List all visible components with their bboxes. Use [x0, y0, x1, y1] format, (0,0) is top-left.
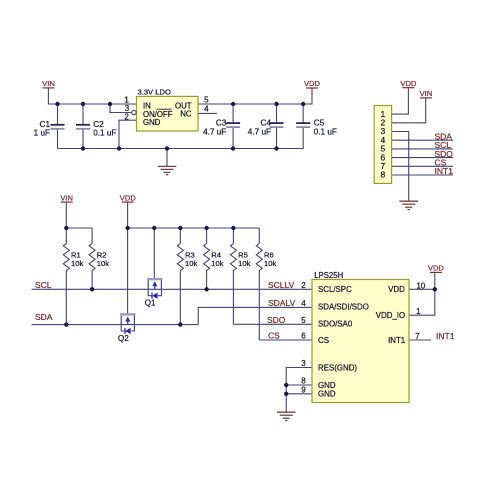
svg-text:1 uF: 1 uF — [34, 128, 50, 137]
svg-text:8: 8 — [301, 377, 306, 386]
svg-text:VDD: VDD — [400, 79, 417, 88]
junction IC pin9 GND — [284, 392, 288, 396]
capacitor C3 label — [203, 118, 227, 136]
svg-text:SCLLV: SCLLV — [268, 280, 295, 290]
junction IC pin8 GND — [284, 383, 288, 387]
svg-text:GND: GND — [318, 381, 336, 390]
ground stem G3 — [285, 394, 287, 412]
svg-text:VDD: VDD — [304, 79, 321, 88]
resistor R3 label — [185, 251, 197, 269]
svg-text:NC: NC — [180, 110, 192, 119]
transistor Q1 — [145, 279, 163, 307]
svg-text:3.3V LDO: 3.3V LDO — [138, 88, 171, 97]
wire VDD rail mid — [128, 227, 260, 229]
svg-text:INT1: INT1 — [436, 331, 455, 341]
resistor R5 label — [238, 251, 250, 269]
capacitor C4 label — [248, 118, 272, 136]
svg-text:5: 5 — [204, 96, 209, 105]
svg-text:1: 1 — [416, 307, 421, 316]
ground stem G1 — [166, 149, 168, 167]
junction LDO GND on GND rail — [117, 146, 121, 150]
supply VDD above connector — [400, 79, 417, 88]
svg-text:8: 8 — [381, 170, 386, 180]
svg-text:INT1: INT1 — [435, 166, 454, 176]
svg-text:CS: CS — [268, 331, 280, 341]
supply VIN above connector — [420, 89, 433, 98]
junction C4 top on VDD rail — [274, 102, 278, 106]
junction IC pin10 VDD — [433, 287, 437, 291]
ground G2 — [399, 201, 418, 209]
svg-text:0.1 uF: 0.1 uF — [314, 127, 337, 136]
wire Q1 gate — [153, 228, 155, 279]
junction R3 bottom on SDA — [178, 322, 182, 326]
wire IC pin7 INT1 — [409, 339, 431, 341]
resistor R4 — [204, 228, 210, 289]
junction R4 bottom on SCL — [204, 287, 208, 291]
junction C4 bottom on GND rail — [274, 146, 278, 150]
svg-text:VIN: VIN — [420, 89, 433, 98]
svg-text:LPS25H: LPS25H — [314, 271, 343, 280]
capacitor C3 leads — [232, 104, 234, 149]
svg-text:4: 4 — [204, 105, 209, 114]
wire IC pin8 GND — [286, 384, 312, 386]
capacitor C3 plates — [226, 123, 240, 127]
svg-text:VDD: VDD — [120, 193, 137, 202]
wire CS line — [259, 339, 312, 341]
svg-text:5: 5 — [301, 316, 306, 325]
capacitor C5 label — [314, 118, 337, 136]
svg-text:10k: 10k — [264, 259, 276, 268]
junction ground stem on GND rail — [165, 146, 169, 150]
junction R2 bottom on SCL — [90, 287, 94, 291]
svg-text:6: 6 — [301, 332, 306, 341]
resistor R5 — [230, 228, 236, 324]
svg-text:Q2: Q2 — [118, 334, 129, 343]
svg-text:SDA: SDA — [35, 312, 53, 322]
wire VDD stem mid + Q2 gate — [127, 202, 129, 314]
svg-text:4: 4 — [301, 299, 306, 308]
wire SDO line — [233, 323, 312, 325]
wire IC pin10 VDD — [409, 272, 435, 289]
svg-text:9: 9 — [301, 385, 306, 394]
svg-text:CS: CS — [318, 336, 329, 345]
capacitor C2 leads — [82, 104, 84, 125]
wire IC pin9 GND — [286, 393, 312, 395]
svg-text:C4: C4 — [261, 118, 272, 127]
junction VIN stem / R1 top — [64, 226, 68, 230]
pin 3 bubble — [132, 110, 136, 114]
junction R4 top on VDD rail — [204, 226, 208, 230]
wire connector pin3 to ground — [392, 132, 409, 201]
svg-text:C3: C3 — [216, 118, 227, 127]
transistor Q2 — [118, 314, 136, 342]
svg-text:GND: GND — [143, 118, 161, 127]
svg-text:INT1: INT1 — [388, 336, 405, 345]
junction C3 top on VDD rail — [231, 102, 235, 106]
svg-text:10k: 10k — [185, 259, 197, 268]
svg-text:10k: 10k — [71, 259, 83, 268]
svg-text:VIN: VIN — [60, 193, 73, 202]
wire LDO GND pin2 — [119, 120, 137, 148]
wire connector pin1 to VDD — [392, 88, 409, 114]
wire SDALV jog — [198, 307, 312, 324]
svg-text:GND: GND — [318, 390, 336, 399]
wire SDA line — [32, 324, 199, 326]
wire IC pin3 RES(GND) — [286, 368, 312, 395]
wire ground rail bottom — [58, 148, 304, 150]
svg-text:7: 7 — [415, 332, 420, 341]
svg-text:0.1 uF: 0.1 uF — [93, 128, 116, 137]
supply VDD above C5 — [304, 79, 321, 88]
svg-text:4.7 uF: 4.7 uF — [248, 127, 271, 136]
capacitor C2 plates — [76, 125, 90, 129]
svg-text:SCL/SPC: SCL/SPC — [318, 285, 352, 294]
junction C2 bottom on GND rail — [81, 146, 85, 150]
wire SCL line — [32, 288, 312, 290]
junction C3 bottom on GND rail — [231, 146, 235, 150]
connector J1 box — [374, 106, 391, 184]
svg-text:VDD: VDD — [428, 264, 445, 273]
svg-text:10: 10 — [416, 281, 425, 290]
svg-text:3: 3 — [301, 359, 306, 368]
wire VIN stem mid — [65, 202, 67, 228]
capacitor C4 plates — [270, 123, 284, 127]
svg-text:2: 2 — [124, 113, 129, 122]
resistor R6 label — [264, 251, 276, 269]
resistor R1 label — [71, 251, 83, 269]
capacitor C1 leads — [57, 104, 59, 125]
svg-text:10k: 10k — [211, 259, 223, 268]
capacitor C5 plates — [296, 123, 310, 127]
junction R3 top on VDD rail — [178, 226, 182, 230]
svg-text:SDO: SDO — [267, 315, 286, 325]
svg-text:VDD: VDD — [388, 285, 405, 294]
capacitor C4 leads — [276, 104, 278, 149]
junction VDD stem / Q2 gate — [125, 226, 129, 230]
wire IC pin1 VDD_IO — [409, 289, 435, 315]
supply VIN top-left — [42, 79, 55, 88]
supply VDD mid — [120, 193, 137, 202]
svg-text:4.7 uF: 4.7 uF — [203, 127, 226, 136]
junction R5 top on VDD rail — [231, 226, 235, 230]
ground G3 — [277, 412, 296, 420]
wire LDO OUT rail — [198, 88, 312, 104]
capacitor C1 label — [34, 120, 51, 138]
svg-text:Q1: Q1 — [145, 298, 156, 307]
svg-text:RES(GND): RES(GND) — [318, 363, 357, 372]
wire LDO NC stub pin4 — [198, 112, 217, 114]
ground G1 — [158, 166, 177, 174]
junction Q1 gate on VDD rail — [152, 226, 156, 230]
svg-text:SDO/SA0: SDO/SA0 — [318, 319, 353, 328]
supply VIN mid — [60, 193, 73, 202]
junction C1 top on VIN rail — [55, 102, 59, 106]
wire VIN rail mid — [66, 227, 92, 229]
resistor R3 — [177, 228, 183, 325]
supply VDD above IC — [428, 264, 445, 273]
capacitor C1 plates — [51, 125, 65, 129]
svg-text:VIN: VIN — [42, 79, 55, 88]
wire VIN rail top — [48, 88, 136, 104]
junction C2 top on VIN rail — [81, 102, 85, 106]
wire pin3 branch — [110, 104, 131, 113]
capacitor C2 label — [93, 120, 116, 138]
junction C5 top on VDD rail — [301, 102, 305, 106]
resistor R2 label — [97, 251, 109, 269]
resistor R2 — [89, 228, 95, 289]
svg-text:C5: C5 — [314, 118, 325, 127]
svg-text:SCL: SCL — [35, 280, 52, 290]
svg-text:10k: 10k — [238, 259, 250, 268]
wire connector pin4 SDA — [392, 139, 453, 141]
resistor R6 — [256, 228, 262, 340]
junction R1 bottom on SDA — [64, 322, 68, 326]
wire connector pin5 SCL — [392, 148, 453, 150]
resistor R1 — [63, 228, 69, 325]
IC U2 LPS25H box — [312, 271, 409, 403]
wire connector pin6 SDO — [392, 157, 453, 159]
svg-text:2: 2 — [301, 281, 306, 290]
svg-text:SDALV: SDALV — [268, 298, 296, 308]
regulator U1 3.3V LDO box — [124, 88, 209, 131]
wire connector pin7 CS — [392, 165, 453, 167]
capacitor C5 leads — [302, 104, 304, 149]
svg-text:10k: 10k — [97, 259, 109, 268]
svg-text:VDD_IO: VDD_IO — [376, 311, 405, 320]
wire connector pin2 to VIN — [392, 98, 426, 122]
resistor R4 label — [211, 251, 223, 269]
svg-text:SDA/SDI/SDO: SDA/SDI/SDO — [318, 303, 369, 312]
wire connector pin8 INT1 — [392, 174, 453, 176]
junction ON/OFF branch on VIN rail — [108, 102, 112, 106]
